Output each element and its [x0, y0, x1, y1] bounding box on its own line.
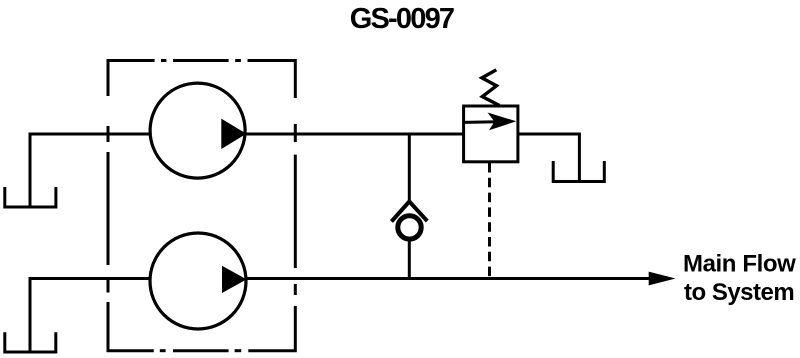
enclosure boundary bottom edge [160, 349, 241, 352]
main flow arrowhead [649, 272, 676, 286]
svg-text:to System: to System [684, 279, 794, 306]
pump P2 flow triangle [222, 266, 247, 293]
wire: check valve branch upper segment [408, 134, 411, 204]
wire: check valve branch lower segment [408, 240, 411, 279]
enclosure boundary (dash-dot box) top edge [108, 61, 295, 99]
pump P1 flow triangle [221, 119, 246, 149]
wire: upper suction line with drop to tank T1 [30, 134, 151, 206]
tank T3 (relief drain reservoir) [553, 161, 604, 182]
enclosure boundary right edge [248, 124, 295, 351]
wire: lower pump outlet / main flow line [245, 277, 650, 280]
relief valve RV1 spring [482, 70, 500, 106]
tank T1 (upper left reservoir) [5, 187, 56, 207]
wire: lower suction line with drop to tank T2 [30, 279, 151, 352]
relief valve RV1 body [464, 106, 518, 162]
svg-text:GS-0097: GS-0097 [350, 3, 454, 35]
wire: upper pump outlet to relief valve [245, 133, 464, 136]
pump P2 circle [150, 233, 246, 329]
check valve CV1 ball [398, 216, 421, 239]
pump P1 circle [150, 83, 245, 178]
svg-text:Main Flow: Main Flow [683, 251, 796, 278]
relief valve RV1 pilot line (dashed) [488, 163, 491, 279]
relief valve RV1 internal arrowhead [488, 113, 517, 131]
enclosure boundary left edge [108, 126, 154, 351]
wire: relief valve outlet to tank T3 [518, 134, 579, 180]
check valve CV1 seat [392, 202, 428, 222]
relief valve RV1 internal flow line [464, 120, 498, 124]
tank T2 (lower left reservoir) [5, 332, 56, 352]
